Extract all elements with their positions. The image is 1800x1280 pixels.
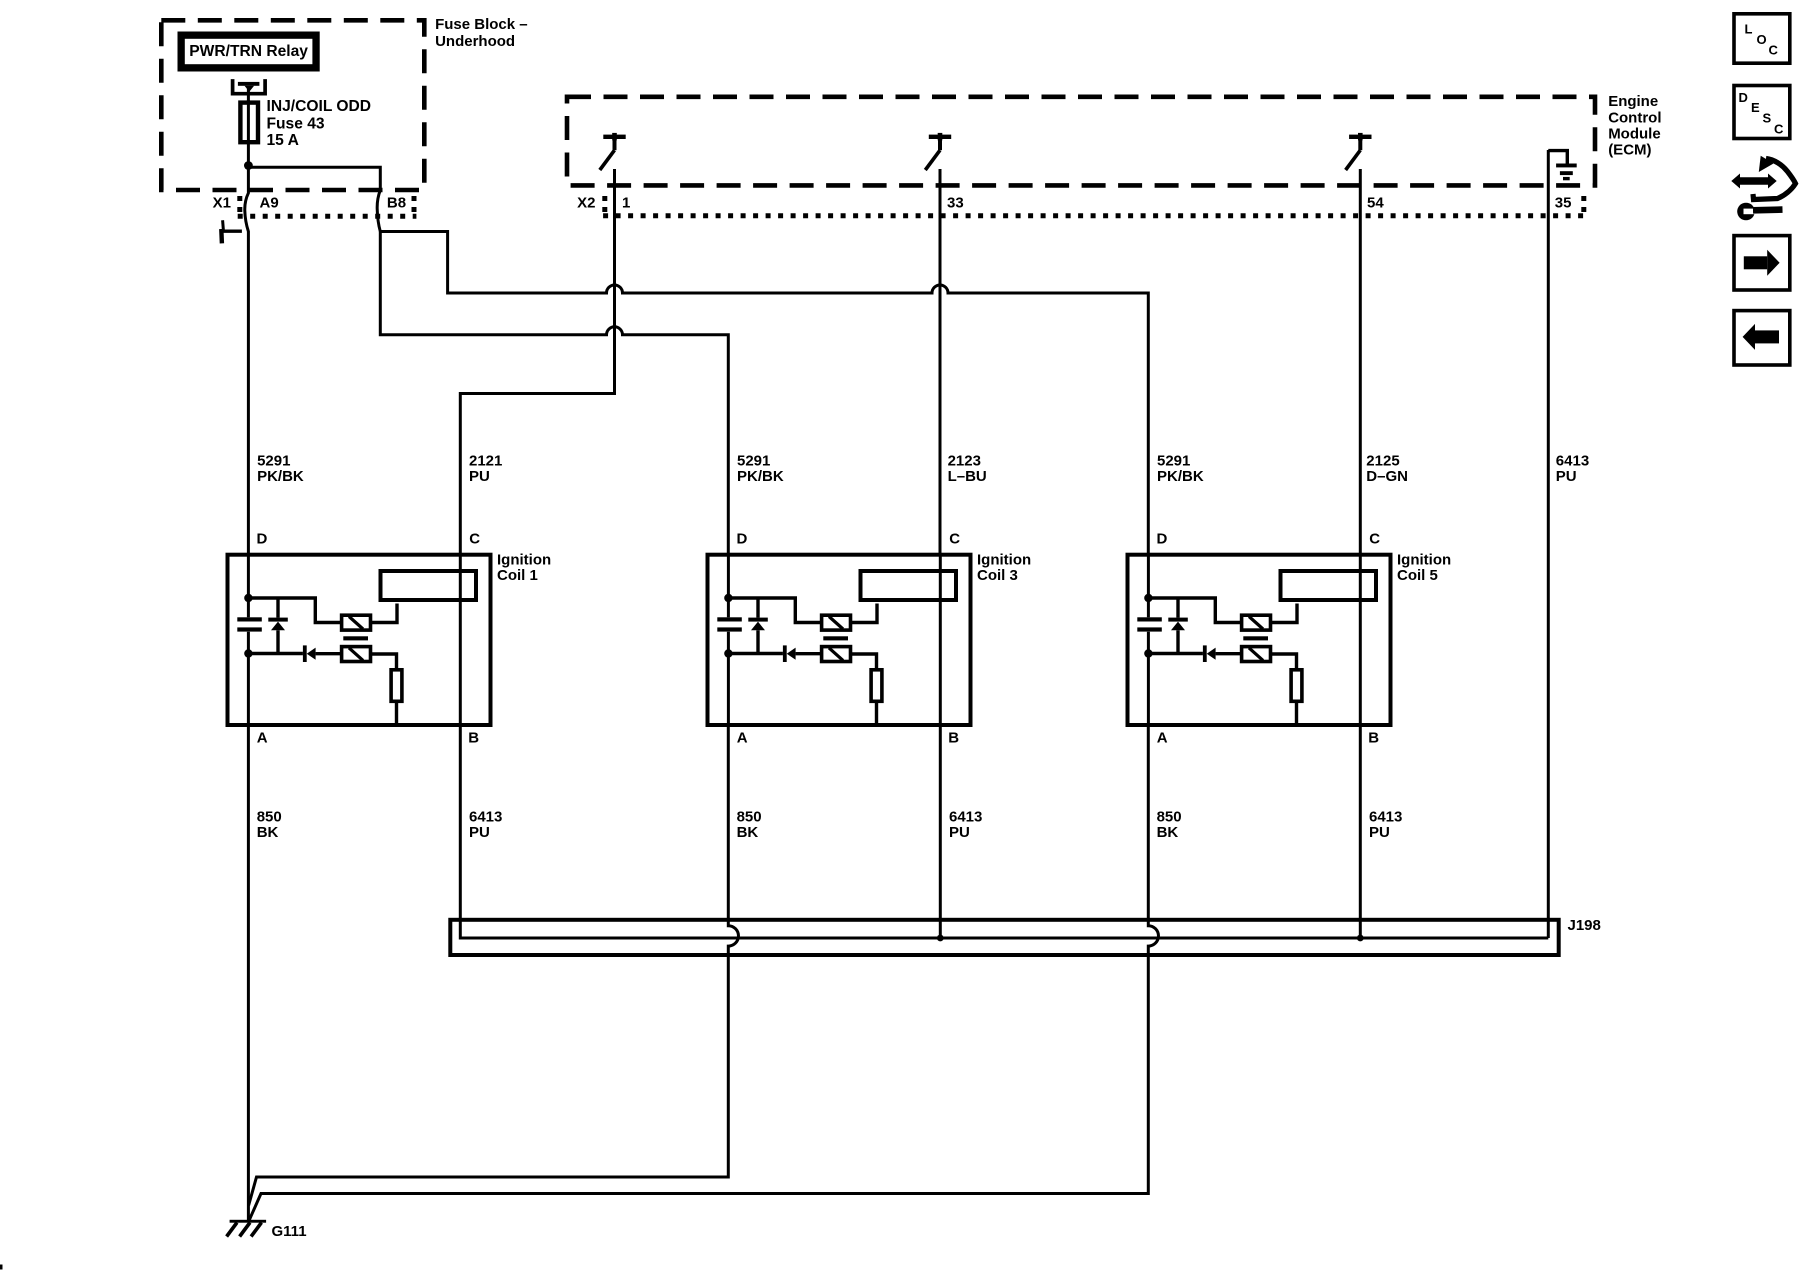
coil 1 D wire upper segment: [247, 554, 250, 617]
svg-text:15 A: 15 A: [267, 132, 299, 149]
svg-text:BK: BK: [1157, 824, 1179, 841]
svg-text:C: C: [1774, 122, 1784, 137]
svg-text:5291: 5291: [737, 453, 770, 470]
svg-text:2121: 2121: [469, 453, 502, 470]
wire 6413: coil 5 B to splice: [1359, 725, 1362, 938]
svg-text:A: A: [1157, 730, 1168, 747]
coil 3 zener diode (cathode up): [756, 598, 759, 618]
coil 1 wire primary to secondary block: [371, 604, 398, 623]
icon back arrow: [1734, 311, 1790, 365]
coil 3 wire winding to resistor: [851, 654, 877, 670]
svg-text:1: 1: [622, 195, 630, 212]
svg-text:850: 850: [257, 809, 282, 826]
coil 5 C-B through wire: [1359, 554, 1362, 727]
coil 5 node top dot: [1144, 594, 1152, 602]
svg-text:B: B: [1368, 730, 1379, 747]
svg-text:6413: 6413: [1556, 453, 1589, 470]
terminal hook X1 pin 1: [223, 229, 242, 232]
svg-text:A: A: [737, 730, 748, 747]
svg-text:C: C: [469, 531, 480, 548]
svg-text:6413: 6413: [1369, 809, 1402, 826]
coil 5 primary winding box: [1242, 615, 1271, 630]
svg-text:Coil 3: Coil 3: [977, 567, 1018, 584]
relay pin bracket: [233, 79, 266, 94]
wire 850: coil 1 A to G111: [247, 725, 250, 1221]
svg-text:X1: X1: [213, 195, 231, 212]
coil 5 diode (points left): [1203, 645, 1216, 662]
pin labels D C A B coil 3: [737, 531, 961, 747]
coil 1 resistor to case wire: [395, 701, 398, 725]
svg-text:PU: PU: [1556, 468, 1577, 485]
coil 5 D wire lower segment: [1147, 632, 1150, 727]
svg-text:PU: PU: [469, 468, 490, 485]
coil 3 diode (points left): [783, 645, 796, 662]
svg-text:Ignition: Ignition: [977, 552, 1031, 569]
wire 850: coil 3 A to G111 (hops splice wire): [249, 725, 739, 1206]
svg-text:E: E: [1751, 100, 1760, 115]
svg-text:PK/BK: PK/BK: [737, 468, 784, 485]
svg-text:C: C: [949, 531, 960, 548]
coil 5 core bar: [1243, 636, 1268, 640]
coil 5 D wire upper segment: [1147, 554, 1150, 617]
pin labels D C A B coil 5: [1157, 531, 1381, 747]
coil 3 D wire lower segment: [727, 632, 730, 727]
svg-text:D: D: [257, 531, 268, 548]
icon service tool: [1731, 156, 1795, 221]
wire labels (circuit number / color) top row: [257, 453, 1589, 486]
coil 1 zener diode (cathode up): [276, 598, 279, 618]
svg-text:Fuse 43: Fuse 43: [267, 116, 325, 133]
svg-text:INJ/COIL ODD: INJ/COIL ODD: [267, 98, 372, 115]
wire labels bottom row: [257, 809, 1403, 842]
wire: B8 line2 5291 to coil 3 D (hops over pin1 wire): [380, 232, 728, 557]
coil 3 capacitor: [717, 617, 742, 631]
coil 1 resistor: [391, 670, 402, 702]
svg-text:35: 35: [1555, 195, 1572, 212]
ground G111: [230, 1220, 267, 1223]
connector X1 row: [213, 195, 406, 212]
svg-text:PU: PU: [1369, 824, 1390, 841]
coil 1 capacitor: [237, 617, 261, 631]
coil 5 secondary winding box: [1242, 647, 1271, 662]
wire: relay to fuse: [247, 88, 250, 103]
svg-text:PU: PU: [469, 824, 490, 841]
coil 5 secondary block: [1281, 571, 1377, 600]
coil 3 core bar: [823, 636, 848, 640]
svg-text:D: D: [1739, 90, 1748, 105]
coil 1 wire winding to resistor: [371, 654, 397, 670]
svg-text:A: A: [257, 730, 268, 747]
svg-text:L: L: [1745, 22, 1753, 37]
coil 1 core bar: [343, 636, 368, 640]
svg-text:O: O: [1757, 32, 1767, 47]
wire 2121: ECM pin 1 to coil 1 C: [460, 169, 614, 556]
ignition coil 5 module box: [1128, 555, 1391, 725]
coil 3 wire bottom node: [728, 652, 783, 655]
svg-text:5291: 5291: [1157, 453, 1190, 470]
coil 5 node bottom dot: [1144, 649, 1152, 657]
ignition coil 3 module box: [708, 555, 971, 725]
svg-text:A9: A9: [260, 195, 279, 212]
svg-text:Control: Control: [1608, 109, 1661, 126]
ECM label: [1608, 93, 1661, 159]
svg-text:BK: BK: [257, 824, 279, 841]
svg-text:X2: X2: [577, 195, 595, 212]
svg-text:(ECM): (ECM): [1608, 142, 1651, 159]
coil 1 secondary block: [381, 571, 477, 600]
wire 2125: ECM pin 54 to coil 5 C: [1359, 169, 1362, 556]
wire 2123: ECM pin 33 to coil 3 C: [939, 169, 942, 556]
coil 3 D wire upper segment: [727, 554, 730, 617]
svg-text:Engine: Engine: [1608, 93, 1658, 110]
svg-text:PU: PU: [949, 824, 970, 841]
svg-text:2123: 2123: [948, 453, 981, 470]
svg-text:Ignition: Ignition: [497, 552, 551, 569]
coil 1 secondary winding box: [342, 647, 371, 662]
icon LOC: [1734, 14, 1790, 63]
svg-text:D: D: [1157, 531, 1168, 548]
wire 6413: coil 3 B to splice: [939, 725, 942, 938]
svg-text:54: 54: [1367, 195, 1384, 212]
fuse block underhood dashed box: [161, 20, 424, 190]
svg-text:Underhood: Underhood: [435, 33, 515, 50]
svg-text:G111: G111: [272, 1223, 307, 1240]
svg-text:Fuse Block –: Fuse Block –: [435, 16, 528, 33]
coil 5 wire top node to primary: [1148, 598, 1241, 623]
coil 5 capacitor: [1137, 617, 1162, 631]
coil 3 resistor to case wire: [875, 701, 878, 725]
coil 1 node bottom dot: [244, 649, 252, 657]
switch driver pin 33: [925, 133, 951, 170]
wire: junction to B8: [248, 167, 380, 231]
coil 5 wire bottom node: [1148, 652, 1203, 655]
coil 3 wire primary to secondary block: [851, 604, 878, 623]
svg-text:Coil 1: Coil 1: [497, 567, 538, 584]
svg-text:D: D: [737, 531, 748, 548]
coil 3 node bottom dot: [724, 649, 732, 657]
svg-text:850: 850: [1157, 809, 1182, 826]
svg-text:6413: 6413: [469, 809, 502, 826]
fuse F43 INJ/COIL ODD 15 A: [247, 100, 250, 164]
coil 3 secondary winding box: [822, 647, 851, 662]
wire 6413: coil 1 B to splice inner wire to pin 35 wire: [460, 725, 1548, 938]
coil 3 C-B through wire: [939, 554, 942, 727]
coil 3 secondary block: [861, 571, 957, 600]
coil 3 primary winding box: [822, 615, 851, 630]
coil 1 node top dot: [244, 594, 252, 602]
svg-text:Coil 5: Coil 5: [1397, 567, 1438, 584]
junction dot: fuse output: [244, 161, 253, 170]
coil 5 resistor to case wire: [1295, 701, 1298, 725]
svg-text:5291: 5291: [257, 453, 290, 470]
svg-text:Ignition: Ignition: [1397, 552, 1451, 569]
connector X2 row: [577, 195, 1571, 212]
svg-text:C: C: [1369, 531, 1380, 548]
ECM internal ground pin 35: [1548, 151, 1567, 164]
svg-text:2125: 2125: [1366, 453, 1399, 470]
svg-text:D–GN: D–GN: [1366, 468, 1408, 485]
wire 850: coil 5 A to G111 (hops splice wire): [249, 725, 1158, 1220]
svg-text:L–BU: L–BU: [948, 468, 987, 485]
icon next arrow: [1734, 236, 1790, 290]
fuse block label: [435, 16, 528, 50]
switch driver pin 1: [600, 133, 626, 170]
wire 6413: ECM pin 35 to splice J198: [1547, 150, 1550, 938]
coil 1 wire top node to primary: [248, 598, 341, 623]
svg-text:C: C: [1769, 43, 1779, 58]
switch driver pin 54: [1346, 133, 1372, 170]
pin labels D C A B coil 1: [257, 531, 481, 747]
coil 5 resistor: [1291, 670, 1302, 702]
svg-text:850: 850: [737, 809, 762, 826]
wire: 5291 feed A9 to coil 1 D (with connector kink): [245, 164, 249, 556]
svg-text:B: B: [948, 730, 959, 747]
coil 5 zener diode (cathode up): [1176, 598, 1179, 618]
coil 3 wire top node to primary: [728, 598, 821, 623]
coil 1 diode (points left): [303, 645, 316, 662]
ignition coil 1 module box: [228, 555, 491, 725]
svg-text:PK/BK: PK/BK: [1157, 468, 1204, 485]
svg-text:6413: 6413: [949, 809, 982, 826]
coil 1 D wire lower segment: [247, 632, 250, 727]
svg-text:PK/BK: PK/BK: [257, 468, 304, 485]
relay K: PWR/TRN Relay: [178, 32, 320, 72]
coil 3 node top dot: [724, 594, 732, 602]
svg-text:Module: Module: [1608, 125, 1661, 142]
ECM dashed box: [567, 97, 1595, 186]
coil 3 resistor: [871, 670, 882, 702]
svg-text:S: S: [1763, 111, 1772, 126]
coil 1 C-B through wire: [459, 554, 462, 727]
svg-text:33: 33: [947, 195, 964, 212]
coil 5 wire winding to resistor: [1271, 654, 1297, 670]
page corner artifact: [0, 1265, 3, 1270]
svg-text:B: B: [468, 730, 479, 747]
coil 1 primary winding box: [342, 615, 371, 630]
wire: B8 branch line1 5291 to coil 5 D (hops over pin1 and pin33 wires): [380, 232, 1148, 557]
icon DESC: [1734, 86, 1790, 139]
svg-text:J198: J198: [1568, 917, 1601, 934]
svg-text:PWR/TRN Relay: PWR/TRN Relay: [189, 43, 308, 60]
svg-text:B8: B8: [387, 195, 406, 212]
coil 1 wire bottom node: [248, 652, 303, 655]
svg-text:BK: BK: [737, 824, 759, 841]
splice J198 outer box: [450, 920, 1558, 955]
coil 5 wire primary to secondary block: [1271, 604, 1298, 623]
